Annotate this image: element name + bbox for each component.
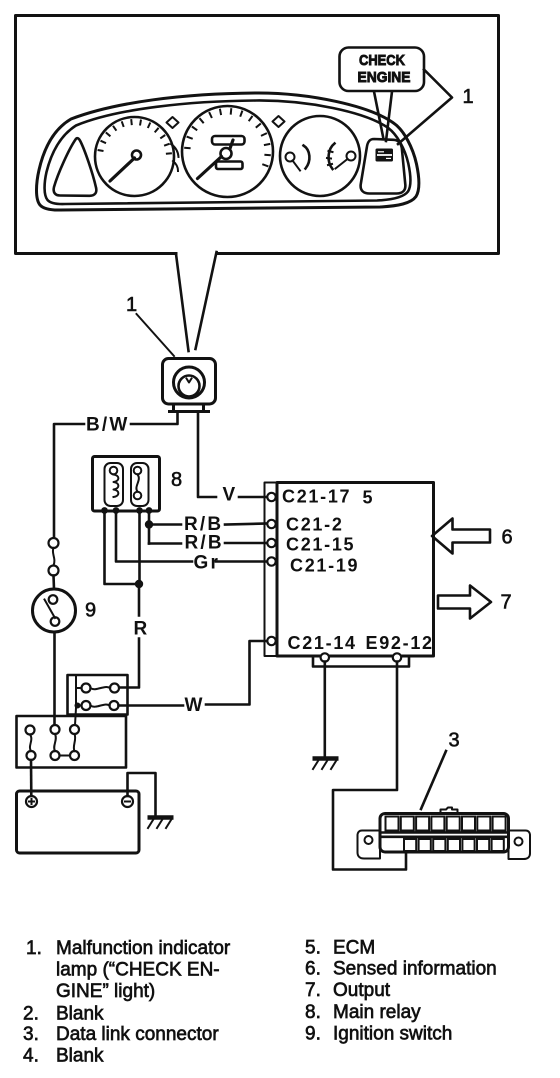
pin C21-14: [267, 637, 275, 645]
svg-text:8: 8: [171, 469, 182, 491]
svg-text:R/B: R/B: [185, 533, 224, 554]
svg-text:V: V: [223, 485, 238, 506]
svg-text:3: 3: [449, 730, 460, 752]
wire relay T4 down: [148, 512, 151, 544]
ground ECM: [313, 759, 339, 770]
svg-text:GINE” light): GINE” light): [56, 981, 155, 1002]
pin C21-17: [267, 493, 275, 501]
wire relay T3 down: [138, 512, 141, 581]
svg-text:lamp (“CHECK EN-: lamp (“CHECK EN-: [56, 960, 220, 981]
wire relay T1 to junction: [105, 512, 136, 584]
legend right column: [305, 938, 497, 1045]
wire W to pin C21-14: [206, 641, 267, 705]
wire R vertical: [119, 588, 139, 688]
ECM bottom bracket: [313, 658, 409, 667]
svg-text:CHECK: CHECK: [359, 52, 405, 69]
svg-text:Gr: Gr: [194, 553, 221, 574]
fuel and temp gauge dial: [280, 116, 360, 196]
svg-text:Ignition switch: Ignition switch: [333, 1024, 452, 1045]
bottom pin E92-12: [393, 653, 401, 661]
diamond marker 1: [167, 117, 179, 128]
frame around cluster illustration: [16, 16, 499, 254]
inline connector: [49, 538, 59, 589]
svg-text:R: R: [134, 619, 150, 640]
svg-text:3.: 3.: [23, 1024, 39, 1045]
svg-text:1: 1: [463, 86, 474, 108]
svg-text:1.: 1.: [26, 938, 42, 959]
junction dot R/B: [145, 520, 153, 528]
svg-text:Data link connector: Data link connector: [56, 1024, 219, 1045]
svg-text:C21-17: C21-17: [282, 487, 351, 507]
cluster inner outline: [45, 100, 411, 204]
data link connector 3: [358, 808, 531, 860]
CHECK ENGINE callout box: [340, 48, 425, 92]
callout tail to indicator: [374, 92, 392, 142]
svg-text:Malfunction indicator: Malfunction indicator: [56, 938, 231, 959]
svg-text:Blank: Blank: [56, 1004, 104, 1025]
wire junction block to battery plus: [30, 760, 33, 796]
cluster outer outline: [37, 93, 419, 210]
svg-text:7.: 7.: [305, 980, 321, 1001]
left gauge window: [54, 138, 97, 196]
junction dot R: [135, 580, 143, 588]
svg-text:W: W: [185, 695, 205, 716]
svg-text:Blank: Blank: [56, 1046, 104, 1067]
wire R/B lower: [149, 542, 267, 545]
wire lamp to V: [198, 412, 216, 497]
pin C21-15: [267, 539, 275, 547]
svg-text:Output: Output: [333, 980, 391, 1001]
svg-text:1: 1: [126, 294, 137, 316]
malfunction indicator lamp: [163, 359, 216, 412]
arrow 7 output: [438, 586, 491, 619]
fusible link box: [68, 675, 128, 725]
svg-text:7: 7: [501, 592, 512, 614]
ECM box 5: [265, 483, 434, 657]
wire relay T2 to Gr: [116, 512, 192, 562]
svg-text:9.: 9.: [305, 1024, 321, 1045]
leader line for label 3: [421, 751, 446, 809]
svg-text:5.: 5.: [305, 938, 321, 959]
wire C21-14 to ground: [323, 662, 326, 757]
svg-text:Sensed information: Sensed information: [333, 959, 497, 980]
wire B/W to ignition switch: [54, 424, 84, 538]
bottom pin C21-14 gnd: [321, 653, 329, 661]
svg-text:Main relay: Main relay: [333, 1002, 421, 1023]
junction block: [17, 716, 127, 768]
tachometer dial: [95, 117, 174, 196]
main relay 8: [93, 457, 160, 514]
check engine indicator lamp icon: [376, 149, 394, 162]
callout pointer to label 1: [398, 70, 452, 145]
svg-text:8.: 8.: [305, 1002, 321, 1023]
pin C21-19: [267, 557, 275, 565]
ground battery: [148, 818, 174, 829]
svg-text:9: 9: [85, 600, 96, 622]
wire W from link box: [119, 704, 184, 707]
svg-text:6.: 6.: [305, 959, 321, 980]
svg-text:E92-12: E92-12: [366, 633, 434, 653]
svg-text:6: 6: [502, 527, 513, 549]
svg-text:5: 5: [363, 488, 375, 508]
svg-text:C21-19: C21-19: [290, 556, 359, 576]
svg-text:C21-2: C21-2: [286, 515, 344, 535]
wire battery minus to ground: [128, 773, 156, 815]
pin C21-2: [267, 520, 275, 528]
ignition switch 9: [33, 589, 76, 632]
svg-text:2.: 2.: [23, 1004, 39, 1025]
battery: [17, 791, 140, 853]
wire Gr to pin C21-19: [216, 560, 267, 563]
speedometer dial: [182, 106, 273, 197]
svg-text:4.: 4.: [23, 1046, 39, 1067]
gear indicator marks: [171, 144, 179, 171]
callout V from frame to lamp: [176, 252, 217, 351]
wire ignition switch to junction block: [53, 632, 56, 725]
wire V to pin C21-17: [239, 496, 267, 499]
svg-text:C21-14: C21-14: [288, 633, 357, 653]
wire R/B upper: [153, 524, 267, 525]
svg-text:ENGINE: ENGINE: [358, 69, 411, 86]
wire E92-12 to data link connector: [333, 662, 406, 870]
right indicator panel: [361, 139, 406, 194]
svg-text:C21-15: C21-15: [286, 535, 355, 555]
svg-text:ECM: ECM: [333, 938, 375, 959]
arrow 6 sensed information: [432, 519, 490, 554]
legend left column: [23, 938, 231, 1067]
wire lamp to B/W: [131, 412, 178, 424]
diamond marker 2: [273, 116, 285, 127]
leader line for label 1: [137, 314, 175, 356]
svg-text:B/W: B/W: [86, 415, 130, 436]
